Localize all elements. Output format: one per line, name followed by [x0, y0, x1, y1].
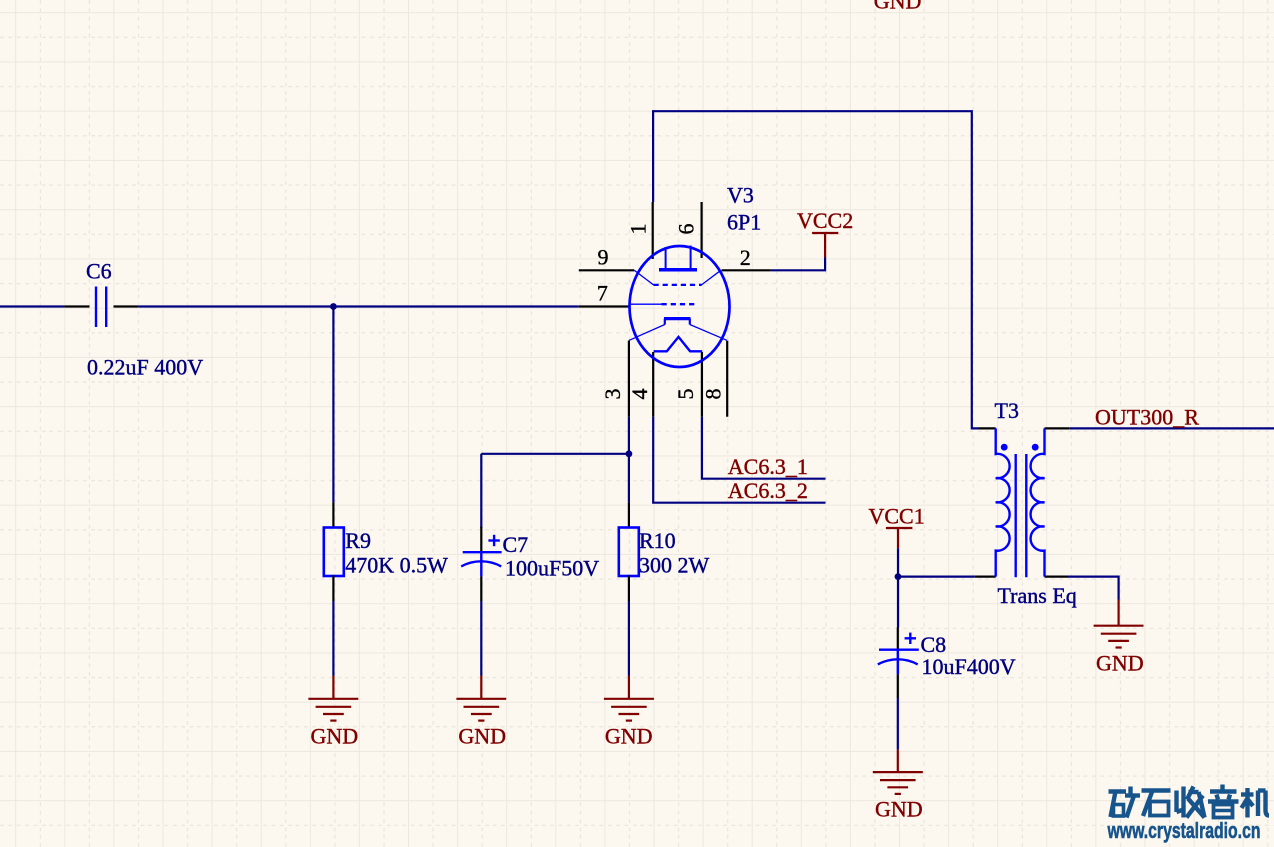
- ground symbol R9: [308, 676, 358, 721]
- svg-text:V3: V3: [727, 183, 754, 208]
- wire heater pin5 to AC6.3_1: [702, 417, 826, 479]
- plus sign C7: [488, 535, 499, 546]
- wire R10 to ground: [628, 601, 630, 676]
- ground symbol R10: [604, 676, 654, 721]
- secondary bottom pin: [1045, 575, 1069, 577]
- wire input net left horizontal: [0, 305, 579, 307]
- wire pin2 to VCC2: [771, 258, 826, 271]
- plus sign C8: [905, 633, 916, 644]
- svg-text:GND: GND: [311, 724, 359, 749]
- anode plate: [659, 246, 697, 270]
- svg-text:VCC1: VCC1: [869, 504, 925, 529]
- cathode: [629, 319, 727, 341]
- wire R9 branch vertical: [332, 307, 334, 503]
- svg-text:7: 7: [597, 280, 608, 305]
- svg-text:1: 1: [626, 224, 651, 235]
- screen grid g2: [634, 270, 721, 285]
- svg-text:6P1: 6P1: [727, 210, 761, 235]
- pin 6: [700, 202, 702, 258]
- svg-text:GND: GND: [458, 724, 506, 749]
- svg-text:GND: GND: [874, 0, 922, 14]
- wire C7 to ground: [480, 601, 482, 676]
- wire cathode to R10: [628, 417, 630, 503]
- pin 4: [652, 352, 654, 417]
- wire VCC1 to transformer primary: [898, 548, 975, 576]
- svg-text:470K 0.5W: 470K 0.5W: [345, 552, 448, 577]
- heater filament: [654, 337, 703, 351]
- svg-text:VCC2: VCC2: [797, 208, 853, 233]
- polarity dot secondary: [1032, 444, 1039, 451]
- capacitor C8: [878, 628, 919, 699]
- secondary winding: [1031, 428, 1045, 576]
- svg-text:0.22uF 400V: 0.22uF 400V: [87, 355, 203, 380]
- primary top pin: [979, 427, 996, 429]
- svg-text:T3: T3: [995, 398, 1019, 423]
- svg-text:6: 6: [674, 224, 699, 235]
- ground symbol C8: [873, 750, 923, 794]
- power symbol VCC1: [886, 528, 913, 548]
- svg-text:GND: GND: [1096, 650, 1144, 675]
- wire C7 branch: [481, 454, 629, 528]
- resistor R10: [619, 502, 639, 601]
- svg-text:9: 9: [598, 245, 609, 270]
- junction node VCC1: [895, 573, 902, 580]
- svg-text:2: 2: [740, 245, 751, 270]
- svg-text:300 2W: 300 2W: [639, 552, 710, 577]
- transformer T3: [975, 428, 1069, 577]
- ground symbol secondary: [1094, 600, 1144, 648]
- svg-text:AC6.3_2: AC6.3_2: [728, 478, 808, 503]
- wire R9 to ground: [332, 601, 334, 676]
- svg-text:8: 8: [700, 389, 725, 400]
- wire secondary bottom to ground: [1068, 577, 1119, 600]
- svg-text:R10: R10: [639, 528, 676, 553]
- svg-text:OUT300_R: OUT300_R: [1095, 405, 1199, 430]
- svg-text:Trans Eq: Trans Eq: [998, 583, 1077, 608]
- pin 8: [726, 341, 728, 417]
- pin 9: [579, 269, 634, 271]
- svg-text:100uF50V: 100uF50V: [505, 556, 599, 581]
- junction node cathode: [626, 450, 633, 457]
- tube envelope ellipse: [630, 246, 730, 367]
- svg-text:AC6.3_1: AC6.3_1: [728, 454, 808, 479]
- control grid g1: [630, 303, 697, 305]
- tube V3: [579, 202, 771, 417]
- svg-text:www.crystalradio.cn: www.crystalradio.cn: [1107, 818, 1261, 843]
- wire anode loop to transformer: [653, 111, 978, 428]
- svg-text:3: 3: [600, 389, 625, 400]
- pin 5: [701, 352, 703, 417]
- secondary top pin: [1045, 427, 1070, 429]
- wire heater pin4 to AC6.3_2: [653, 417, 825, 503]
- pin 7: [579, 305, 629, 307]
- svg-text:C6: C6: [86, 259, 112, 284]
- capacitor C7: [461, 527, 501, 601]
- junction node grid of V3: [330, 303, 337, 310]
- svg-text:5: 5: [673, 389, 698, 400]
- pin 1: [652, 202, 654, 259]
- ground symbol C7: [456, 676, 506, 721]
- svg-text:GND: GND: [605, 724, 653, 749]
- watermark logo kuang shi shou yin ji: [1109, 785, 1270, 818]
- primary bottom pin: [975, 575, 996, 577]
- capacitor C6: [64, 287, 138, 328]
- svg-text:R9: R9: [345, 528, 371, 553]
- power symbol VCC2: [812, 233, 838, 258]
- svg-text:C7: C7: [503, 532, 529, 557]
- svg-text:GND: GND: [875, 797, 923, 822]
- pin 3: [628, 341, 630, 417]
- wire VCC1 to C8: [897, 577, 899, 628]
- primary winding: [996, 428, 1010, 576]
- resistor R9: [324, 502, 344, 601]
- svg-text:4: 4: [627, 389, 652, 400]
- polarity dot primary: [1001, 444, 1008, 451]
- wire secondary out: [1069, 427, 1274, 429]
- core lines: [1015, 454, 1017, 577]
- pin 2: [722, 269, 771, 271]
- wire C8 to ground: [897, 698, 899, 750]
- svg-text:10uF400V: 10uF400V: [922, 654, 1016, 679]
